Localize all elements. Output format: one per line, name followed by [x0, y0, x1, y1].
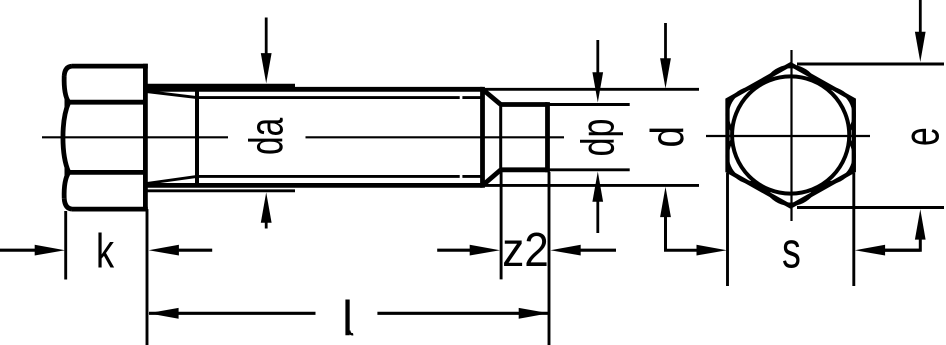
- svg-text:dp: dp: [572, 119, 624, 157]
- svg-text:e: e: [894, 127, 946, 146]
- svg-text:da: da: [240, 118, 293, 155]
- svg-text:l: l: [342, 292, 353, 345]
- svg-text:s: s: [782, 221, 801, 279]
- svg-text:d: d: [641, 126, 693, 147]
- svg-text:k: k: [96, 225, 115, 279]
- svg-text:z2: z2: [502, 222, 549, 276]
